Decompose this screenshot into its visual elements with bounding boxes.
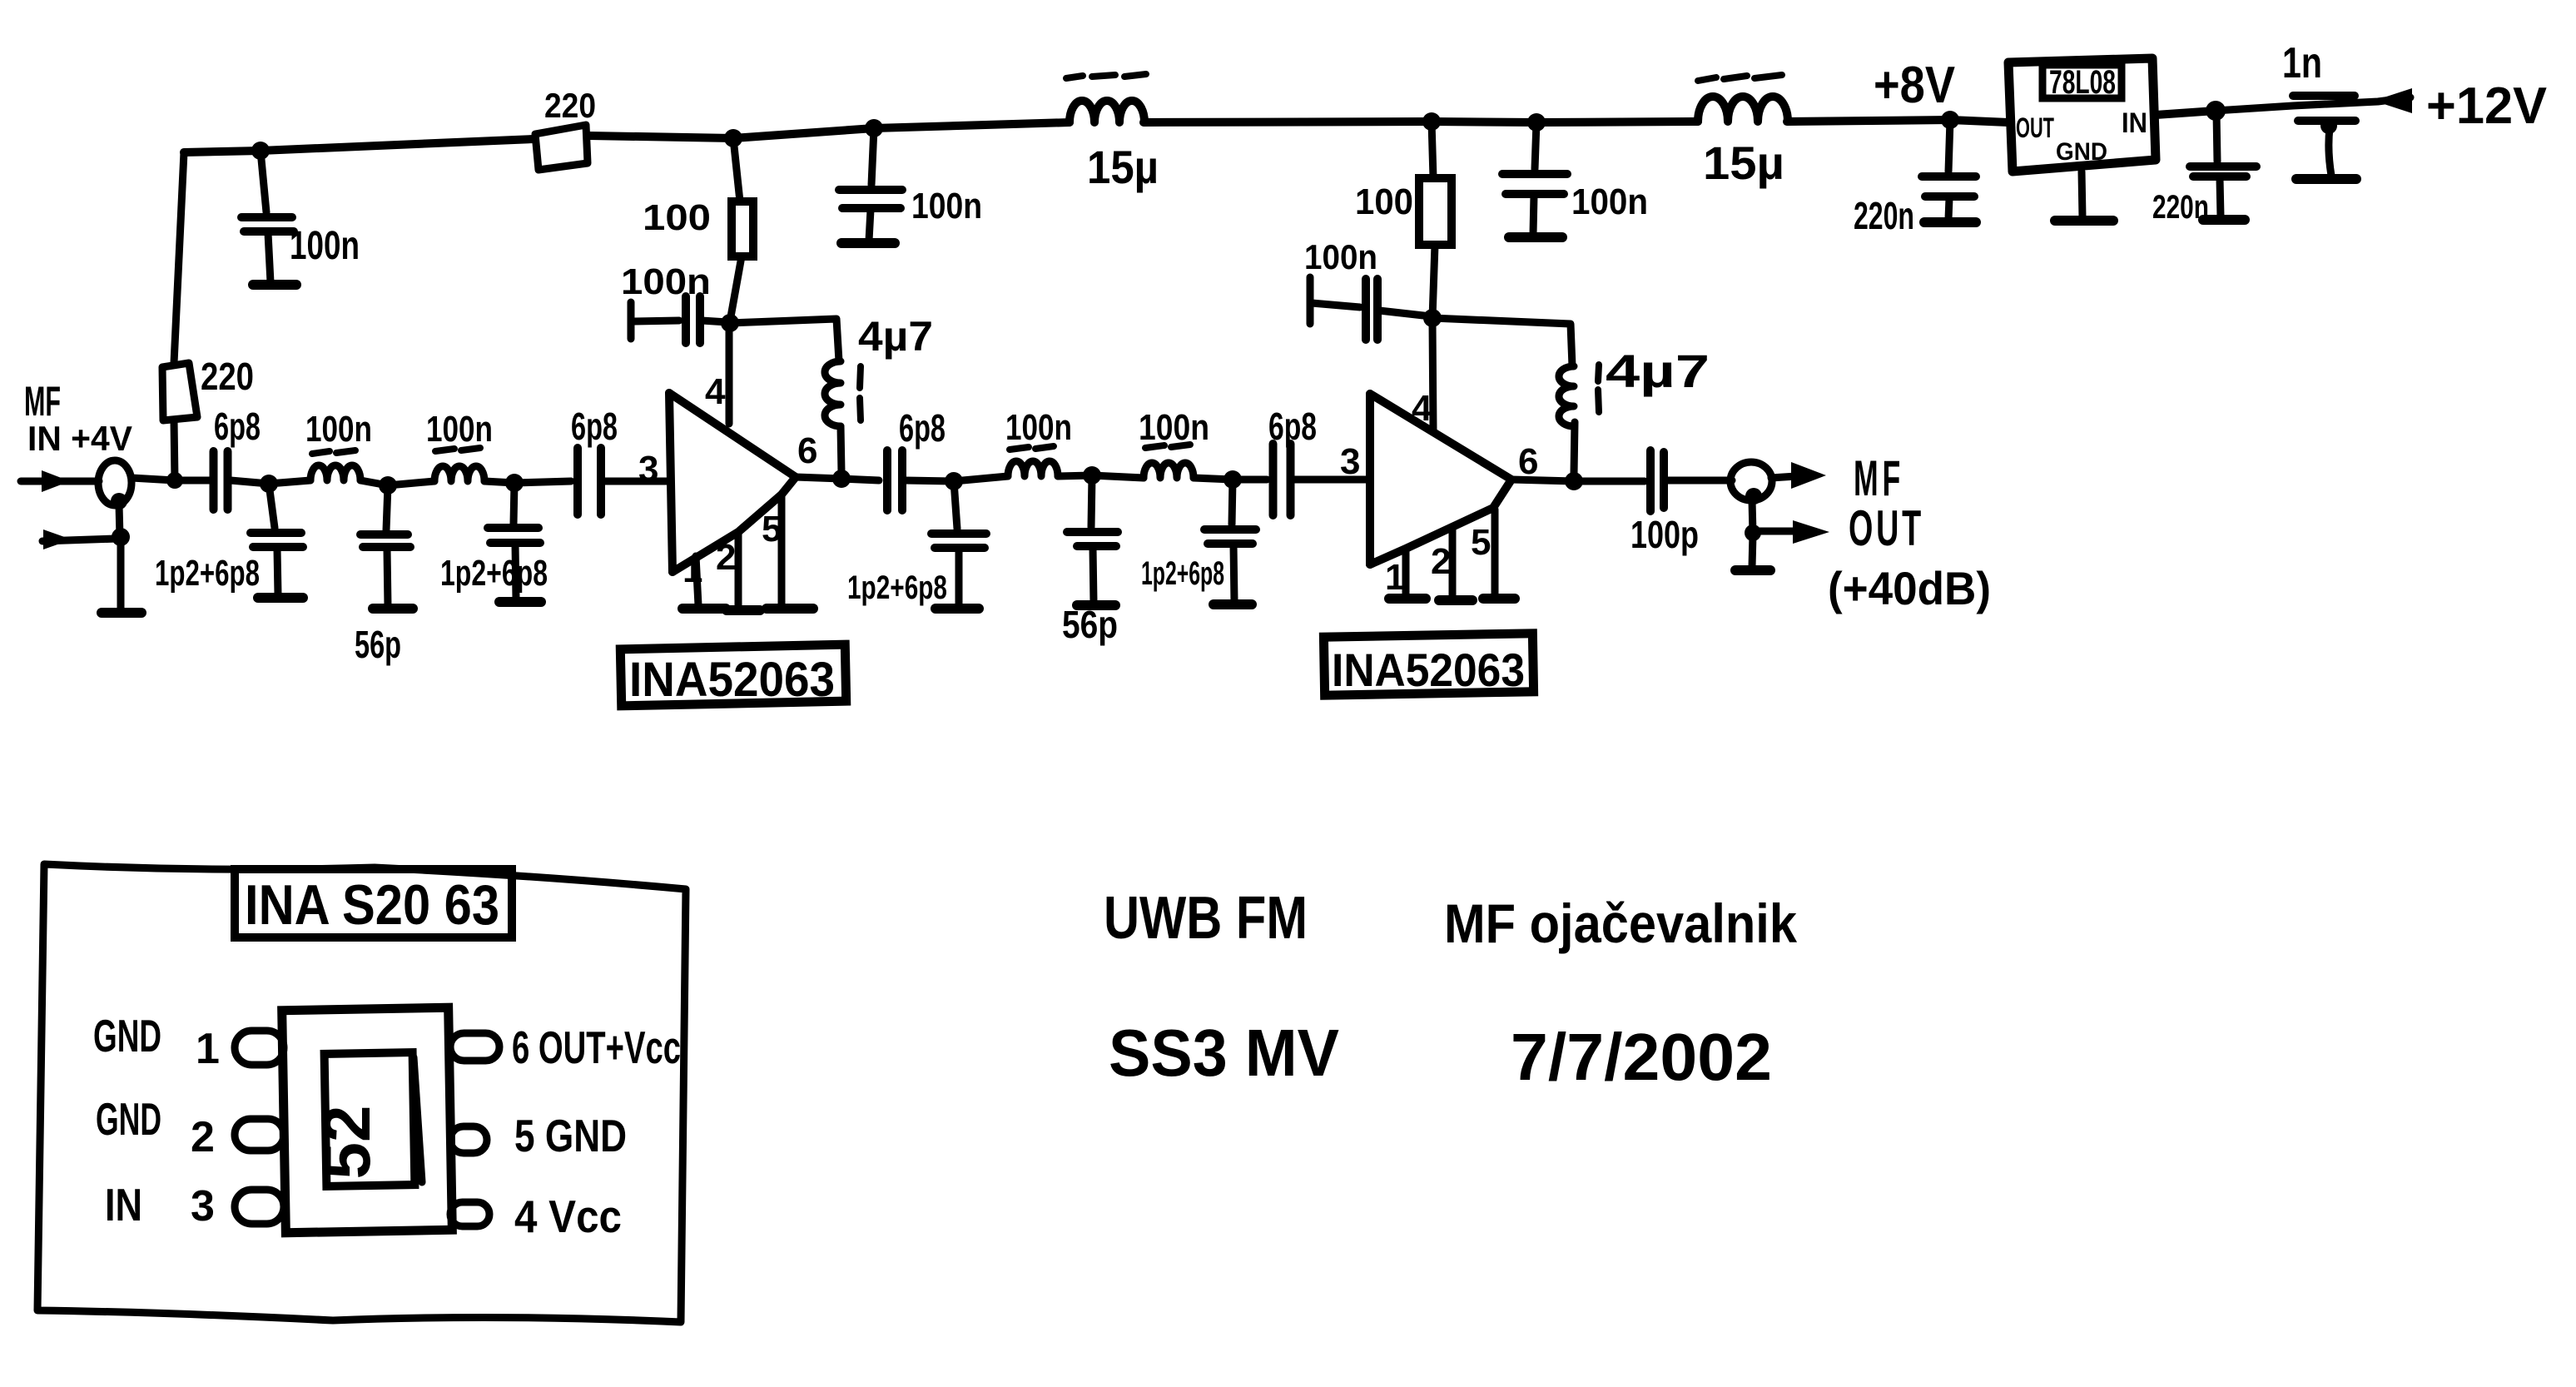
svg-text:+12V: +12V	[2426, 77, 2547, 135]
svg-text:IN +4V: IN +4V	[27, 419, 132, 458]
svg-text:15µ: 15µ	[1087, 141, 1159, 193]
svg-text:78L08: 78L08	[2049, 64, 2116, 101]
svg-text:4µ7: 4µ7	[1606, 345, 1710, 397]
svg-text:1n: 1n	[2282, 39, 2322, 87]
svg-text:1: 1	[196, 1025, 220, 1073]
svg-text:SS3 MV: SS3 MV	[1109, 1016, 1339, 1090]
svg-text:100n: 100n	[305, 409, 372, 450]
svg-text:GND: GND	[2056, 138, 2107, 166]
svg-text:1p2+6p8: 1p2+6p8	[1141, 555, 1224, 592]
svg-text:100n: 100n	[290, 224, 360, 268]
svg-text:100p: 100p	[1630, 513, 1699, 556]
svg-text:INA52063: INA52063	[629, 653, 835, 707]
svg-text:100n: 100n	[1005, 407, 1072, 448]
svg-text:IN: IN	[105, 1179, 142, 1230]
svg-text:6p8: 6p8	[214, 405, 261, 448]
svg-text:MF: MF	[24, 378, 61, 425]
svg-text:3: 3	[191, 1182, 215, 1230]
svg-text:2: 2	[1431, 541, 1451, 582]
svg-text:6 OUT+Vcc: 6 OUT+Vcc	[512, 1022, 681, 1073]
svg-text:220n: 220n	[2152, 189, 2209, 226]
svg-text:6p8: 6p8	[571, 405, 618, 448]
svg-text:6p8: 6p8	[1268, 405, 1317, 448]
svg-text:15µ: 15µ	[1703, 137, 1784, 189]
svg-text:4 Vcc: 4 Vcc	[514, 1191, 622, 1242]
svg-text:3: 3	[1340, 441, 1360, 482]
svg-text:2: 2	[716, 537, 736, 578]
svg-text:100n: 100n	[1139, 407, 1209, 448]
svg-text:220n: 220n	[1854, 194, 1914, 237]
svg-text:IN: IN	[2122, 107, 2147, 139]
svg-text:4: 4	[705, 371, 726, 412]
svg-text:5 GND: 5 GND	[514, 1110, 627, 1161]
svg-text:100n: 100n	[621, 261, 711, 302]
svg-text:GND: GND	[93, 1010, 161, 1061]
svg-text:100n: 100n	[911, 186, 982, 226]
svg-text:6: 6	[1518, 441, 1538, 482]
svg-text:UWB FM: UWB FM	[1104, 885, 1308, 952]
svg-text:4µ7: 4µ7	[858, 313, 933, 360]
svg-text:1p2+6p8: 1p2+6p8	[847, 569, 947, 606]
svg-text:6: 6	[797, 430, 817, 471]
svg-text:5: 5	[1471, 522, 1491, 563]
svg-text:MF: MF	[1854, 450, 1904, 506]
svg-text:100: 100	[643, 197, 711, 238]
svg-text:GND: GND	[96, 1093, 161, 1145]
svg-text:7/7/2002: 7/7/2002	[1511, 1020, 1772, 1094]
svg-text:100n: 100n	[426, 409, 493, 450]
svg-text:220: 220	[544, 86, 596, 125]
svg-text:MF ojačevalnik: MF ojačevalnik	[1444, 892, 1797, 954]
svg-text:INA S20 63: INA S20 63	[245, 873, 499, 937]
svg-text:1p2+6p8: 1p2+6p8	[440, 553, 548, 594]
svg-text:(+40dB): (+40dB)	[1828, 562, 1991, 614]
svg-text:56p: 56p	[355, 623, 401, 666]
svg-text:6p8: 6p8	[899, 406, 946, 450]
svg-text:+8V: +8V	[1874, 57, 1955, 114]
svg-text:52: 52	[310, 1106, 384, 1180]
svg-text:1p2+6p8: 1p2+6p8	[155, 553, 260, 594]
svg-text:220: 220	[201, 355, 254, 398]
svg-text:OUT: OUT	[2016, 112, 2054, 144]
svg-text:3: 3	[638, 449, 658, 490]
svg-text:2: 2	[191, 1113, 215, 1161]
svg-text:100n: 100n	[1571, 181, 1648, 222]
svg-text:100n: 100n	[1304, 237, 1377, 276]
svg-text:100: 100	[1355, 181, 1413, 222]
svg-text:56p: 56p	[1062, 603, 1118, 646]
svg-text:OUT: OUT	[1849, 500, 1924, 556]
svg-text:INA52063: INA52063	[1332, 644, 1525, 696]
